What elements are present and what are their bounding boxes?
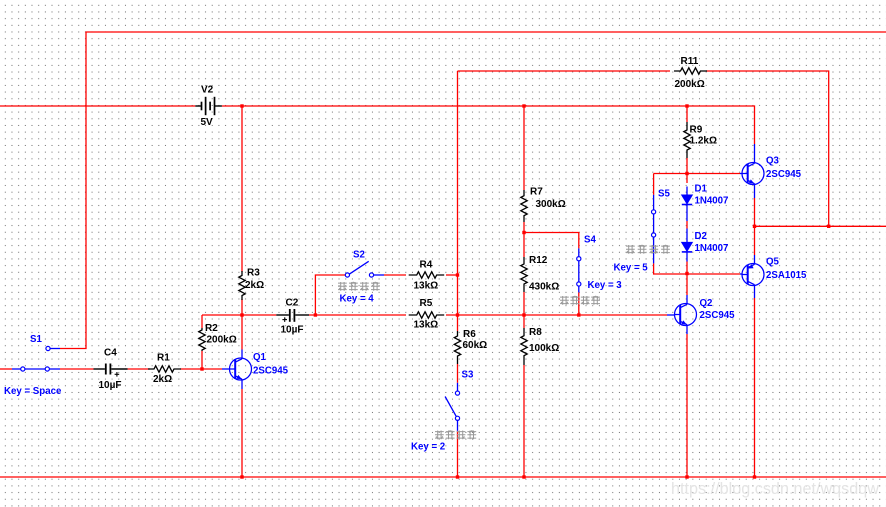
svg-text:Q2: Q2 <box>700 298 713 309</box>
svg-text:5V: 5V <box>201 117 214 128</box>
svg-text:S3: S3 <box>462 369 474 380</box>
svg-text:10µF: 10µF <box>281 325 304 336</box>
svg-text:200kΩ: 200kΩ <box>207 335 237 346</box>
svg-text:2SC945: 2SC945 <box>700 310 736 321</box>
svg-text:13kΩ: 13kΩ <box>414 319 439 330</box>
svg-text:D2: D2 <box>695 231 707 242</box>
svg-text:Q3: Q3 <box>766 156 780 167</box>
svg-text:Q5: Q5 <box>766 256 780 267</box>
svg-text:R4: R4 <box>420 260 433 271</box>
svg-text:Key = 2: Key = 2 <box>411 441 445 452</box>
svg-text:S5: S5 <box>658 188 670 199</box>
svg-text:1N4007: 1N4007 <box>695 243 729 254</box>
svg-text:R7: R7 <box>530 186 543 197</box>
svg-text:R5: R5 <box>420 298 433 309</box>
svg-text:2SC945: 2SC945 <box>766 169 802 180</box>
svg-text:V2: V2 <box>201 84 214 95</box>
svg-text:2kΩ: 2kΩ <box>153 374 172 385</box>
svg-text:S1: S1 <box>30 334 42 345</box>
svg-text:S4: S4 <box>584 234 596 245</box>
svg-text:R3: R3 <box>247 268 260 279</box>
svg-text:R6: R6 <box>463 329 476 340</box>
svg-text:Key = 4: Key = 4 <box>340 294 375 305</box>
svg-text:S2: S2 <box>353 250 365 261</box>
svg-text:C4: C4 <box>104 347 117 358</box>
svg-text:D1: D1 <box>695 184 708 195</box>
svg-text:R1: R1 <box>157 353 170 364</box>
svg-text:Key = 5: Key = 5 <box>614 263 649 274</box>
svg-text:2SC945: 2SC945 <box>253 366 289 377</box>
svg-text:R8: R8 <box>529 327 542 338</box>
svg-text:13kΩ: 13kΩ <box>414 280 439 291</box>
svg-text:200kΩ: 200kΩ <box>675 79 705 90</box>
svg-text:10µF: 10µF <box>99 380 122 391</box>
svg-text:https://blog.csdn.net/wqsdqw: https://blog.csdn.net/wqsdqw <box>671 479 880 498</box>
svg-text:Key = 3: Key = 3 <box>588 280 623 291</box>
svg-text:R11: R11 <box>681 56 699 67</box>
svg-text:60kΩ: 60kΩ <box>463 340 488 351</box>
svg-text:C2: C2 <box>286 298 299 309</box>
svg-text:2SA1015: 2SA1015 <box>766 270 807 281</box>
svg-text:Q1: Q1 <box>253 352 267 363</box>
svg-text:Key = Space: Key = Space <box>4 386 62 397</box>
svg-text:430kΩ: 430kΩ <box>529 282 559 293</box>
svg-text:R9: R9 <box>690 124 703 135</box>
svg-text:100kΩ: 100kΩ <box>529 343 559 354</box>
svg-text:300kΩ: 300kΩ <box>536 199 566 210</box>
svg-text:R12: R12 <box>529 255 548 266</box>
svg-text:1N4007: 1N4007 <box>695 196 729 207</box>
svg-text:R2: R2 <box>205 323 218 334</box>
svg-text:2kΩ: 2kΩ <box>245 280 264 291</box>
svg-text:1.2kΩ: 1.2kΩ <box>690 136 717 147</box>
